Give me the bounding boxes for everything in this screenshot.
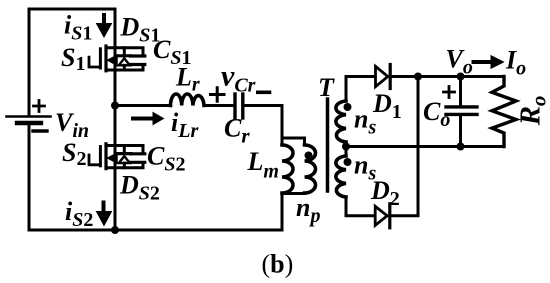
arrow iLr — [133, 113, 164, 125]
wire secondary bottom to D2 — [346, 197, 375, 216]
battery Vin — [7, 101, 51, 132]
arrow iS2 — [97, 203, 112, 226]
winding np (primary) — [305, 145, 316, 193]
junction Vo node — [457, 73, 465, 81]
body diode DS1 — [118, 56, 131, 66]
svg-text:CS2: CS2 — [147, 142, 185, 176]
resistor Ro — [492, 77, 516, 147]
switch S2 loop (body diode + snubber cap) — [106, 146, 143, 168]
plus sign vCr — [211, 88, 225, 101]
capacitor Co — [446, 77, 477, 147]
junction half-bridge midpoint — [111, 102, 119, 110]
svg-text:T: T — [318, 73, 335, 102]
svg-text:Lm: Lm — [247, 147, 279, 183]
wire center tap — [345, 142, 348, 156]
transformer core T — [326, 99, 330, 191]
wire midpoint to resonant tank — [115, 104, 171, 107]
inductor Lr — [171, 94, 205, 106]
junction Co bottom — [457, 143, 465, 151]
junction rail to bottom wire — [111, 226, 119, 234]
body diode DS2 — [118, 154, 131, 164]
diode D1 — [376, 65, 391, 89]
dot polarity ns bottom — [344, 158, 352, 166]
transistor S2 (MOSFET) — [89, 144, 117, 169]
svg-text:Io: Io — [505, 46, 526, 80]
transistor S1 (MOSFET) — [89, 46, 117, 71]
capacitor CS2 — [131, 154, 145, 163]
svg-text:np: np — [296, 193, 320, 227]
wire primary vertical bottom — [281, 193, 284, 230]
svg-text:(b): (b) — [262, 250, 294, 279]
svg-text:iS1: iS1 — [64, 11, 92, 45]
wire np bottom stub — [282, 192, 305, 196]
svg-text:S2: S2 — [62, 138, 86, 170]
svg-text:Lr: Lr — [175, 63, 200, 96]
wire secondary top — [346, 77, 374, 102]
wire output return rail (center tap to load) — [346, 145, 504, 148]
wire primary vertical top — [281, 106, 284, 146]
wire Cr to primary — [244, 104, 282, 107]
junction center tap — [342, 143, 350, 151]
wire input top rail — [29, 9, 115, 115]
capacitor Cr — [235, 94, 243, 118]
wire Lr to Cr — [204, 104, 234, 107]
wire D2 up to output node — [390, 77, 418, 216]
wire bottom rail — [29, 229, 282, 232]
svg-text:DS2: DS2 — [119, 171, 160, 205]
svg-text:D1: D1 — [372, 89, 402, 123]
dot polarity ns top — [344, 103, 352, 111]
svg-text:iS2: iS2 — [65, 197, 93, 231]
junction D2-D1 node — [414, 73, 422, 81]
svg-text:iLr: iLr — [171, 108, 198, 142]
svg-text:Co: Co — [423, 97, 450, 131]
svg-text:D2: D2 — [370, 176, 400, 210]
svg-text:Vo: Vo — [446, 45, 473, 79]
minus sign vCr — [258, 91, 270, 95]
dot polarity np — [305, 152, 313, 160]
switch S1 loop (body diode + snubber cap) — [106, 48, 143, 70]
wire input bottom-left — [28, 125, 31, 230]
plus sign Co — [444, 87, 455, 98]
diode D2 — [375, 204, 390, 228]
arrow iS1 — [97, 15, 112, 37]
arrow Io — [474, 56, 504, 69]
svg-text:Cr: Cr — [224, 114, 250, 148]
winding ns bottom — [336, 156, 346, 197]
capacitor CS1 — [131, 56, 145, 65]
svg-text:vCr: vCr — [221, 60, 256, 97]
winding ns top — [336, 101, 346, 142]
wire D1 to output node — [390, 75, 504, 78]
wire np top stub — [282, 138, 305, 145]
svg-text:Vin: Vin — [55, 108, 89, 142]
svg-text:S1: S1 — [61, 43, 85, 75]
wire half-bridge rail — [114, 9, 117, 230]
inductor Lm (magnetizing, on main line) — [282, 145, 293, 193]
svg-text:Ro: Ro — [515, 96, 550, 127]
